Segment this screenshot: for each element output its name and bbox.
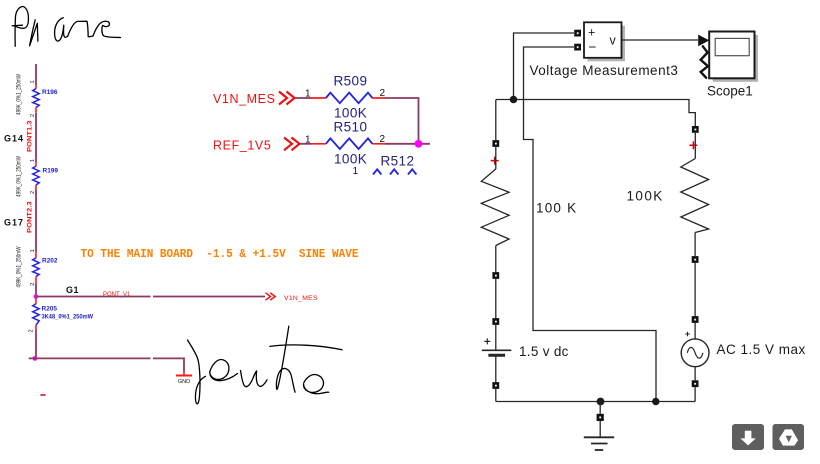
AC source circle bbox=[681, 323, 709, 380]
handwritten annotation "Ph" bbox=[12, 7, 38, 47]
resistor R196 bbox=[17, 74, 58, 117]
svg-text:R196: R196 bbox=[42, 89, 58, 96]
off-page connector chevron REF_1V5 bbox=[284, 138, 300, 151]
port VM minus bbox=[574, 44, 581, 51]
svg-text:2: 2 bbox=[29, 329, 35, 332]
resistor R510 bbox=[305, 120, 386, 167]
port resistor2 bottom bbox=[692, 256, 699, 263]
svg-text:2: 2 bbox=[380, 134, 386, 145]
port DC source bottom bbox=[492, 382, 499, 389]
handwritten annotation "ase" bbox=[55, 18, 121, 41]
wire: vertical bus segments (plum) bbox=[35, 64, 37, 358]
junction node (magenta) R512 bbox=[415, 140, 423, 148]
svg-text:PONT1.3: PONT1.3 bbox=[27, 120, 34, 152]
resistor R199 bbox=[17, 156, 59, 197]
plus mark resistor1 bbox=[491, 157, 499, 165]
wire resistor1 to DC source bbox=[495, 279, 497, 318]
svg-text:2: 2 bbox=[380, 88, 386, 99]
wire top node bbox=[496, 100, 695, 127]
junction dot ground tap bbox=[597, 398, 605, 406]
wire DC source to bottom rail bbox=[495, 389, 497, 402]
svg-text:R205: R205 bbox=[42, 306, 58, 313]
svg-text:1: 1 bbox=[30, 249, 36, 252]
wire AC source to bottom rail bbox=[694, 387, 696, 401]
svg-text:REF_1V5: REF_1V5 bbox=[213, 139, 271, 153]
block Scope1 shadow bbox=[713, 35, 758, 82]
svg-text:1: 1 bbox=[305, 89, 311, 100]
wire R509 to node bbox=[385, 98, 419, 144]
svg-text:GND: GND bbox=[178, 379, 190, 385]
port DC source top bbox=[492, 318, 499, 325]
wire ground stem bbox=[599, 402, 601, 414]
port resistor1 bottom bbox=[492, 272, 499, 279]
ground symbol bbox=[584, 421, 614, 450]
port resistor2 top bbox=[692, 126, 699, 133]
ground GND (schematic) bbox=[176, 372, 192, 386]
port VM plus bbox=[574, 30, 581, 37]
resistor2 body (100K) bbox=[681, 133, 709, 256]
svg-text:Scope1: Scope1 bbox=[707, 84, 753, 99]
button download bbox=[732, 424, 764, 450]
op block Voltage Measurement shadow bbox=[588, 26, 626, 62]
svg-text:499K_0%1_250mW: 499K_0%1_250mW bbox=[17, 246, 23, 287]
block Voltage Measurement bbox=[584, 22, 622, 58]
svg-text:1: 1 bbox=[30, 159, 36, 162]
red dash mark bbox=[40, 394, 45, 396]
svg-text:R510: R510 bbox=[334, 120, 368, 135]
wire VM output to Scope bbox=[622, 39, 698, 41]
svg-text:R509: R509 bbox=[334, 74, 368, 89]
svg-text:G1: G1 bbox=[66, 285, 79, 295]
svg-text:G14: G14 bbox=[4, 134, 24, 144]
resistor R202 bbox=[17, 246, 58, 287]
port resistor1 top bbox=[492, 140, 499, 147]
svg-text:V1N_MES: V1N_MES bbox=[284, 295, 318, 302]
svg-text:V1N_MES: V1N_MES bbox=[213, 92, 276, 106]
resistor1 body (100 K) bbox=[481, 147, 509, 272]
port AC source top bbox=[692, 316, 699, 323]
svg-text:TO THE MAIN BOARD -1.5 & +1.5: TO THE MAIN BOARD -1.5 & +1.5V SINE WAVE bbox=[81, 247, 359, 261]
svg-text:PONT_V1: PONT_V1 bbox=[103, 292, 131, 298]
svg-text:R512: R512 bbox=[381, 154, 415, 169]
svg-text:499K_0%1_250mW: 499K_0%1_250mW bbox=[17, 74, 23, 115]
wire REF_1V5 to R510 bbox=[300, 143, 311, 145]
resistor R509 bbox=[305, 74, 386, 121]
svg-text:Voltage Measurement3: Voltage Measurement3 bbox=[530, 63, 679, 78]
svg-text:R202: R202 bbox=[42, 258, 58, 265]
wire R510 to node and stub bbox=[385, 143, 430, 145]
svg-text:499K_0%1_250mW: 499K_0%1_250mW bbox=[17, 156, 23, 197]
resistor R205 bbox=[29, 300, 94, 333]
svg-text:100K: 100K bbox=[334, 106, 367, 121]
svg-text:1: 1 bbox=[30, 80, 36, 83]
svg-text:−: − bbox=[589, 40, 597, 55]
off-page connector V1N_MES (small) bbox=[266, 293, 276, 300]
svg-text:+: + bbox=[588, 26, 595, 40]
wire VM minus input bbox=[524, 47, 657, 399]
wire bottom horizontal to GND bbox=[29, 358, 184, 371]
svg-text:1.5 v dc: 1.5 v dc bbox=[519, 344, 569, 359]
handwritten annotation "pente" bbox=[188, 326, 343, 404]
svg-text:100 K: 100 K bbox=[536, 201, 577, 216]
junction node bottom (magenta) bbox=[33, 356, 38, 361]
wire V1N_MES to R509 bbox=[295, 97, 311, 99]
plus mark resistor2 bbox=[689, 141, 697, 149]
svg-text:2: 2 bbox=[30, 283, 36, 286]
off-page connector chevron V1N_MES bbox=[279, 92, 295, 105]
svg-text:3K48_0%1_250mW: 3K48_0%1_250mW bbox=[42, 313, 94, 320]
wire G1 horizontal bbox=[36, 296, 265, 298]
junction node (magenta) bbox=[34, 294, 39, 299]
svg-text:R199: R199 bbox=[43, 167, 59, 174]
arrowhead into Scope bbox=[698, 35, 709, 47]
junction dot minus tap bbox=[652, 398, 659, 405]
svg-text:2: 2 bbox=[30, 191, 36, 194]
resistor R512 (clipped) bbox=[353, 154, 417, 178]
svg-text:100K: 100K bbox=[627, 189, 664, 204]
wire left branch top bbox=[495, 100, 497, 141]
svg-text:100K: 100K bbox=[334, 152, 367, 167]
port ground bbox=[597, 414, 604, 421]
button drive bbox=[773, 424, 805, 450]
port AC source bottom bbox=[692, 380, 699, 387]
wire bottom rail bbox=[496, 401, 695, 403]
battery DC source 1.5v bbox=[482, 325, 512, 382]
svg-text:2: 2 bbox=[30, 114, 36, 117]
annotation zigzag at scope input bbox=[701, 46, 708, 78]
wire VM plus input bbox=[514, 33, 575, 100]
svg-text:v: v bbox=[610, 34, 617, 48]
svg-text:G17: G17 bbox=[4, 217, 24, 227]
block Scope1 bbox=[709, 32, 754, 79]
svg-text:1: 1 bbox=[305, 135, 311, 146]
wire resistor2 to AC source bbox=[694, 263, 696, 316]
svg-text:AC 1.5 V max: AC 1.5 V max bbox=[717, 342, 806, 357]
junction dot top node bbox=[510, 96, 518, 104]
svg-text:PONT2.3: PONT2.3 bbox=[27, 201, 34, 233]
svg-text:1: 1 bbox=[353, 166, 359, 177]
